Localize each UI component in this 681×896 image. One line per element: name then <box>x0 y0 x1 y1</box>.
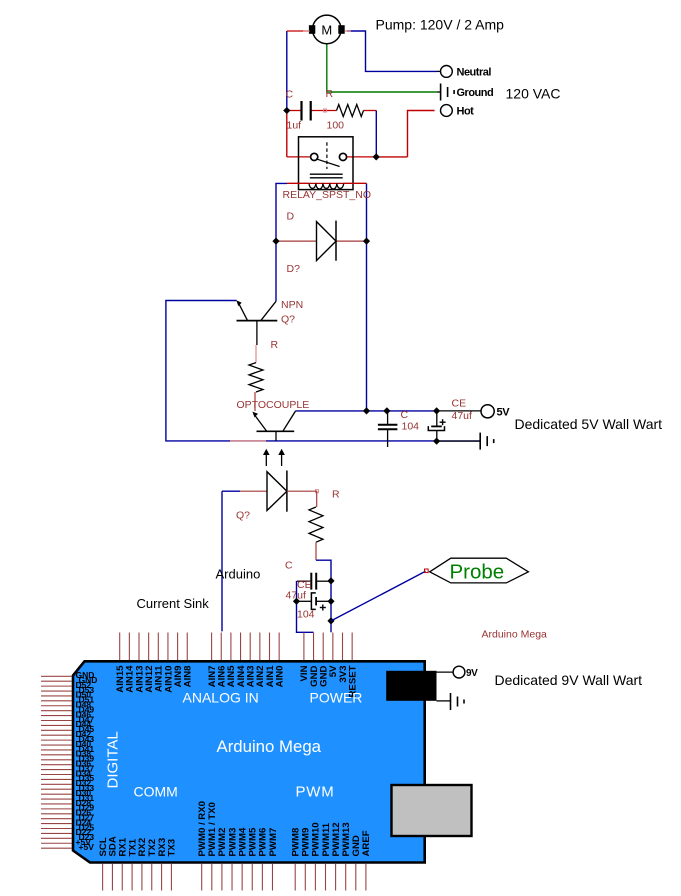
svg-text:PWM7: PWM7 <box>268 828 279 857</box>
wire into relay left contact (red) <box>287 156 311 158</box>
wire coil right (red) <box>344 182 367 184</box>
svg-text:100: 100 <box>327 120 345 132</box>
diode D1 flyback <box>287 211 337 276</box>
wire diode anode (red) <box>276 240 317 242</box>
wire relay contact left (red) <box>286 111 288 157</box>
wire motor left feed (blue) <box>286 31 288 111</box>
wire 5V terminal stub (black) <box>437 410 481 412</box>
ground symbol 9V wall wart <box>451 693 465 710</box>
svg-text:47uf: 47uf <box>452 410 473 422</box>
svg-text:COMM: COMM <box>134 784 178 800</box>
wire cap bus down (blue) <box>330 581 332 621</box>
wire R3 bottom (red) <box>315 542 317 560</box>
label Arduino <box>216 566 261 581</box>
board label PWM <box>296 784 335 801</box>
wire Q1 emitter loop (blue) <box>166 301 480 441</box>
wire LED anode (blue) <box>222 490 240 492</box>
terminal Hot <box>441 105 475 118</box>
wire down to R3 (red) <box>316 491 318 507</box>
pin marker motor left <box>303 30 310 32</box>
wire opto emitter pin on rail (red) <box>230 440 266 442</box>
label Dedicated 9V Wall Wart <box>495 672 643 688</box>
wire LED cathode (red) <box>287 490 317 492</box>
wire jack to ground <box>437 700 451 702</box>
terminal 9V <box>453 666 478 679</box>
pin marker LED cathode <box>316 490 319 493</box>
label Arduino Mega small <box>482 629 548 641</box>
svg-text:+5V: +5V <box>79 842 95 852</box>
pin marker motor right <box>345 30 351 32</box>
board label DIGITAL <box>105 731 122 788</box>
svg-text:D: D <box>287 211 295 223</box>
resistor R2 base <box>249 339 279 411</box>
board label POWER <box>310 690 363 706</box>
label 120 VAC <box>506 86 561 102</box>
svg-text:AIN0: AIN0 <box>274 666 285 688</box>
svg-text:CE: CE <box>452 398 467 410</box>
svg-text:Dedicated 5V Wall Wart: Dedicated 5V Wall Wart <box>515 416 663 432</box>
wire motor ground (green) <box>327 44 437 92</box>
ground symbol 5V wall wart <box>480 433 494 450</box>
svg-text:D?: D? <box>287 263 301 275</box>
label Current Sink <box>137 596 210 611</box>
probe flag <box>430 558 529 583</box>
svg-text:C: C <box>286 89 294 101</box>
svg-text:Neutral: Neutral <box>457 67 492 79</box>
junction node probe tap <box>327 617 334 624</box>
wire junction to hot (red) <box>376 156 407 158</box>
wire diode junction down to Q1 collector (blue) <box>275 241 277 301</box>
wire R1 out (red) <box>364 110 377 112</box>
wire neutral stub (black) <box>437 70 441 72</box>
wire hot (red) <box>408 111 435 157</box>
svg-text:AIN8: AIN8 <box>183 665 194 688</box>
svg-text:5V: 5V <box>497 406 511 418</box>
svg-text:Arduino Mega: Arduino Mega <box>482 629 548 641</box>
svg-text:R: R <box>332 489 340 501</box>
light arrows into phototransistor <box>263 449 285 466</box>
wire opto collector to rail (blue) <box>296 410 367 412</box>
svg-text:104: 104 <box>297 609 315 621</box>
power jack <box>386 671 436 701</box>
arduino mega board body <box>73 661 425 862</box>
junction node rail-CE top <box>433 407 440 414</box>
svg-text:RELAY_SPST_NO: RELAY_SPST_NO <box>283 189 372 201</box>
top pin labels <box>115 665 358 698</box>
junction node C5 left <box>293 598 300 605</box>
svg-text:1uf: 1uf <box>287 120 302 132</box>
svg-text:R: R <box>326 88 334 100</box>
junction node cap input <box>283 107 290 114</box>
wire LED anode pin (red) <box>240 490 267 492</box>
capacitor C4 ceramic <box>285 560 331 591</box>
board label Arduino Mega <box>217 737 322 756</box>
svg-text:ANALOG IN: ANALOG IN <box>183 690 259 706</box>
svg-text:9V: 9V <box>466 668 478 679</box>
label Pump: 120V / 2 Amp <box>376 17 505 33</box>
relay K1 RELAY_SPST_NO <box>283 137 372 201</box>
wire bottom rail to gnd (black) <box>437 440 481 442</box>
capacitor C1 1uf <box>286 89 311 132</box>
board label COMM <box>134 784 178 800</box>
svg-text:104: 104 <box>402 420 420 432</box>
wire rail to 5V caps (blue) <box>367 410 437 412</box>
junction node C5 right <box>327 598 334 605</box>
wire motor left pin (red) <box>287 30 310 32</box>
svg-text:120 VAC: 120 VAC <box>506 86 561 102</box>
svg-text:R: R <box>271 339 279 351</box>
wire cap C1 input (red) <box>287 110 301 112</box>
transistor Q1 NPN <box>236 299 303 345</box>
capacitor C3 CE 47uf electrolytic <box>428 398 472 442</box>
left pin labels <box>76 670 98 852</box>
svg-text:Q?: Q? <box>281 314 295 326</box>
wire right bus relay to rail (blue) <box>366 183 368 411</box>
wire R1 down to relay contact (blue) <box>375 111 377 157</box>
svg-text:TX3: TX3 <box>167 839 178 857</box>
wire motor right (blue) to Neutral <box>347 31 437 71</box>
resistor R1 100 <box>326 88 364 132</box>
svg-text:M: M <box>321 23 332 38</box>
capacitor C2 104 <box>378 409 419 447</box>
wire R3 to cap bus (blue) <box>316 560 331 581</box>
bottom pin stubs <box>103 864 366 891</box>
junction node C4 right <box>327 577 334 584</box>
capacitor C5 electrolytic 47uf <box>286 589 331 620</box>
wire jack to 9V <box>437 671 454 673</box>
svg-text:AREF: AREF <box>361 830 372 856</box>
svg-text:Ground: Ground <box>457 87 494 99</box>
svg-text:C: C <box>285 560 293 572</box>
svg-text:Current Sink: Current Sink <box>137 596 210 611</box>
junction node relay contact <box>373 153 380 160</box>
svg-text:PWM: PWM <box>296 784 335 801</box>
svg-text:Arduino: Arduino <box>216 566 261 581</box>
svg-text:NPN: NPN <box>281 299 303 311</box>
junction node diode right <box>363 238 370 245</box>
junction node rail right bus <box>363 407 370 414</box>
terminal 5V <box>481 405 510 419</box>
optocoupler U1 phototransistor <box>237 399 310 441</box>
junction node diode left <box>272 238 279 245</box>
label Dedicated 5V Wall Wart <box>515 416 663 432</box>
svg-text:Hot: Hot <box>457 106 475 118</box>
wire C1 to R1 (red) <box>312 110 337 112</box>
wire relay coil left (red) <box>287 182 309 184</box>
top pin stubs <box>120 633 352 661</box>
wire coil left down (blue) <box>276 183 287 241</box>
usb connector <box>392 785 472 836</box>
svg-text:Arduino Mega: Arduino Mega <box>217 737 322 756</box>
pin marker R1 left <box>324 109 327 112</box>
wire diode cathode (red) <box>336 240 367 242</box>
svg-text:OPTOCOUPLE: OPTOCOUPLE <box>237 399 310 411</box>
left pin stubs <box>41 676 72 848</box>
wire relay right contact to junction (red) <box>344 156 376 158</box>
bottom pin labels <box>98 801 372 856</box>
terminal Neutral <box>441 66 492 79</box>
svg-text:C: C <box>401 409 409 421</box>
svg-text:Pump: 120V / 2 Amp: Pump: 120V / 2 Amp <box>376 17 505 33</box>
svg-text:DIGITAL: DIGITAL <box>105 731 122 788</box>
wire 5V pin riser (blue) <box>330 621 332 632</box>
svg-text:Dedicated 9V Wall Wart: Dedicated 9V Wall Wart <box>495 672 643 688</box>
motor M1 pump <box>309 15 345 44</box>
probe pin marker <box>425 569 429 573</box>
ground symbol 120VAC <box>441 84 494 101</box>
svg-text:Q?: Q? <box>236 510 250 522</box>
svg-text:Probe: Probe <box>450 561 505 584</box>
wire cap left bus (blue) <box>297 581 314 632</box>
wire ground stub (black) <box>437 91 441 93</box>
junction node rail-C2 <box>383 407 390 414</box>
resistor R3 series <box>309 489 340 543</box>
board label ANALOG IN <box>183 690 259 706</box>
wire AIN pin riser (blue) <box>221 491 223 631</box>
wire probe (blue diagonal) <box>331 571 426 621</box>
led D2 opto input <box>236 471 287 522</box>
svg-text:POWER: POWER <box>310 690 363 706</box>
junction node rail-CE bottom <box>433 438 440 445</box>
